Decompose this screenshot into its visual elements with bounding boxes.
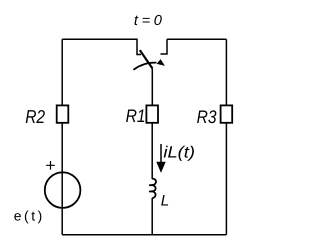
svg-text:R1: R1 (126, 106, 146, 126)
svg-text:e(t): e(t) (14, 209, 42, 224)
svg-text:R3: R3 (197, 107, 217, 127)
svg-text:R2: R2 (25, 106, 45, 127)
svg-text:iL(t): iL(t) (163, 144, 195, 162)
svg-text:L: L (161, 193, 169, 210)
svg-text:t=0: t=0 (134, 13, 162, 29)
